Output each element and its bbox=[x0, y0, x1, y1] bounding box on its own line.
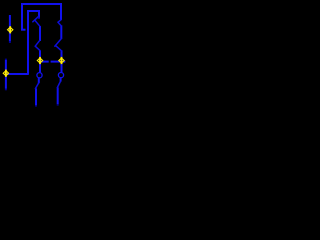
wire left vertical lower bbox=[5, 60, 7, 89]
wire branch C stub below circle bbox=[60, 78, 62, 82]
wire branch B bottom vertical bbox=[35, 88, 37, 105]
junction marker S2 bbox=[37, 57, 42, 64]
terminal circle branch C bbox=[58, 73, 63, 78]
wire horizontal between nodes right part bbox=[51, 61, 66, 63]
switch blade branch C lower bbox=[55, 39, 61, 46]
wire branch B upper stub bbox=[38, 10, 40, 18]
wire fade tail A2 bottom bbox=[5, 89, 7, 91]
wire mid vertical bbox=[27, 10, 29, 74]
junction marker S1 bbox=[8, 26, 13, 33]
wire fade tail A2 top bbox=[5, 59, 7, 60]
wire branch C lower vertical bbox=[61, 50, 63, 72]
junction marker S4 bbox=[3, 70, 8, 77]
wire branch B jog to bottom bbox=[35, 83, 38, 89]
switch blade branch B lower bbox=[35, 41, 39, 46]
wire mid horizontal bbox=[27, 10, 40, 12]
switch notch branch C upper left bbox=[58, 20, 61, 22]
wire branch B diagonal return lower bbox=[35, 46, 40, 50]
wire left vertical upper bbox=[9, 15, 11, 41]
switch S1 blade (branch B upper) bbox=[33, 16, 39, 22]
wire branch C mid vertical bbox=[60, 25, 62, 39]
wire branch B mid vertical bbox=[39, 26, 41, 41]
wire fade tail branch C bottom bbox=[57, 104, 59, 105]
wire branch B diagonal return bbox=[35, 20, 40, 26]
switch notch branch C upper right bbox=[58, 22, 61, 25]
wire top bus horizontal bbox=[21, 3, 62, 5]
wire branch B lower vertical bbox=[39, 51, 41, 73]
wire horizontal between nodes left part bbox=[41, 61, 49, 63]
wire branch C bottom vertical bbox=[57, 87, 59, 104]
terminal circle branch B bbox=[37, 73, 42, 78]
wire branch C jog to bottom bbox=[57, 82, 60, 88]
wire stub right at node bbox=[21, 29, 26, 31]
wire left drop from top bus bbox=[21, 3, 23, 30]
wire branch C upper vertical bbox=[60, 3, 62, 20]
wire fade tail A1 bottom bbox=[9, 41, 11, 43]
wire branch C diagonal return lower bbox=[55, 45, 61, 50]
junction marker S3 bbox=[59, 57, 64, 64]
wire fade tail branch B stub bbox=[38, 18, 40, 20]
wire fade tail branch B bottom bbox=[35, 105, 37, 106]
wire bottom-left horizontal bbox=[7, 73, 29, 75]
wire branch B stub below circle bbox=[38, 78, 40, 83]
